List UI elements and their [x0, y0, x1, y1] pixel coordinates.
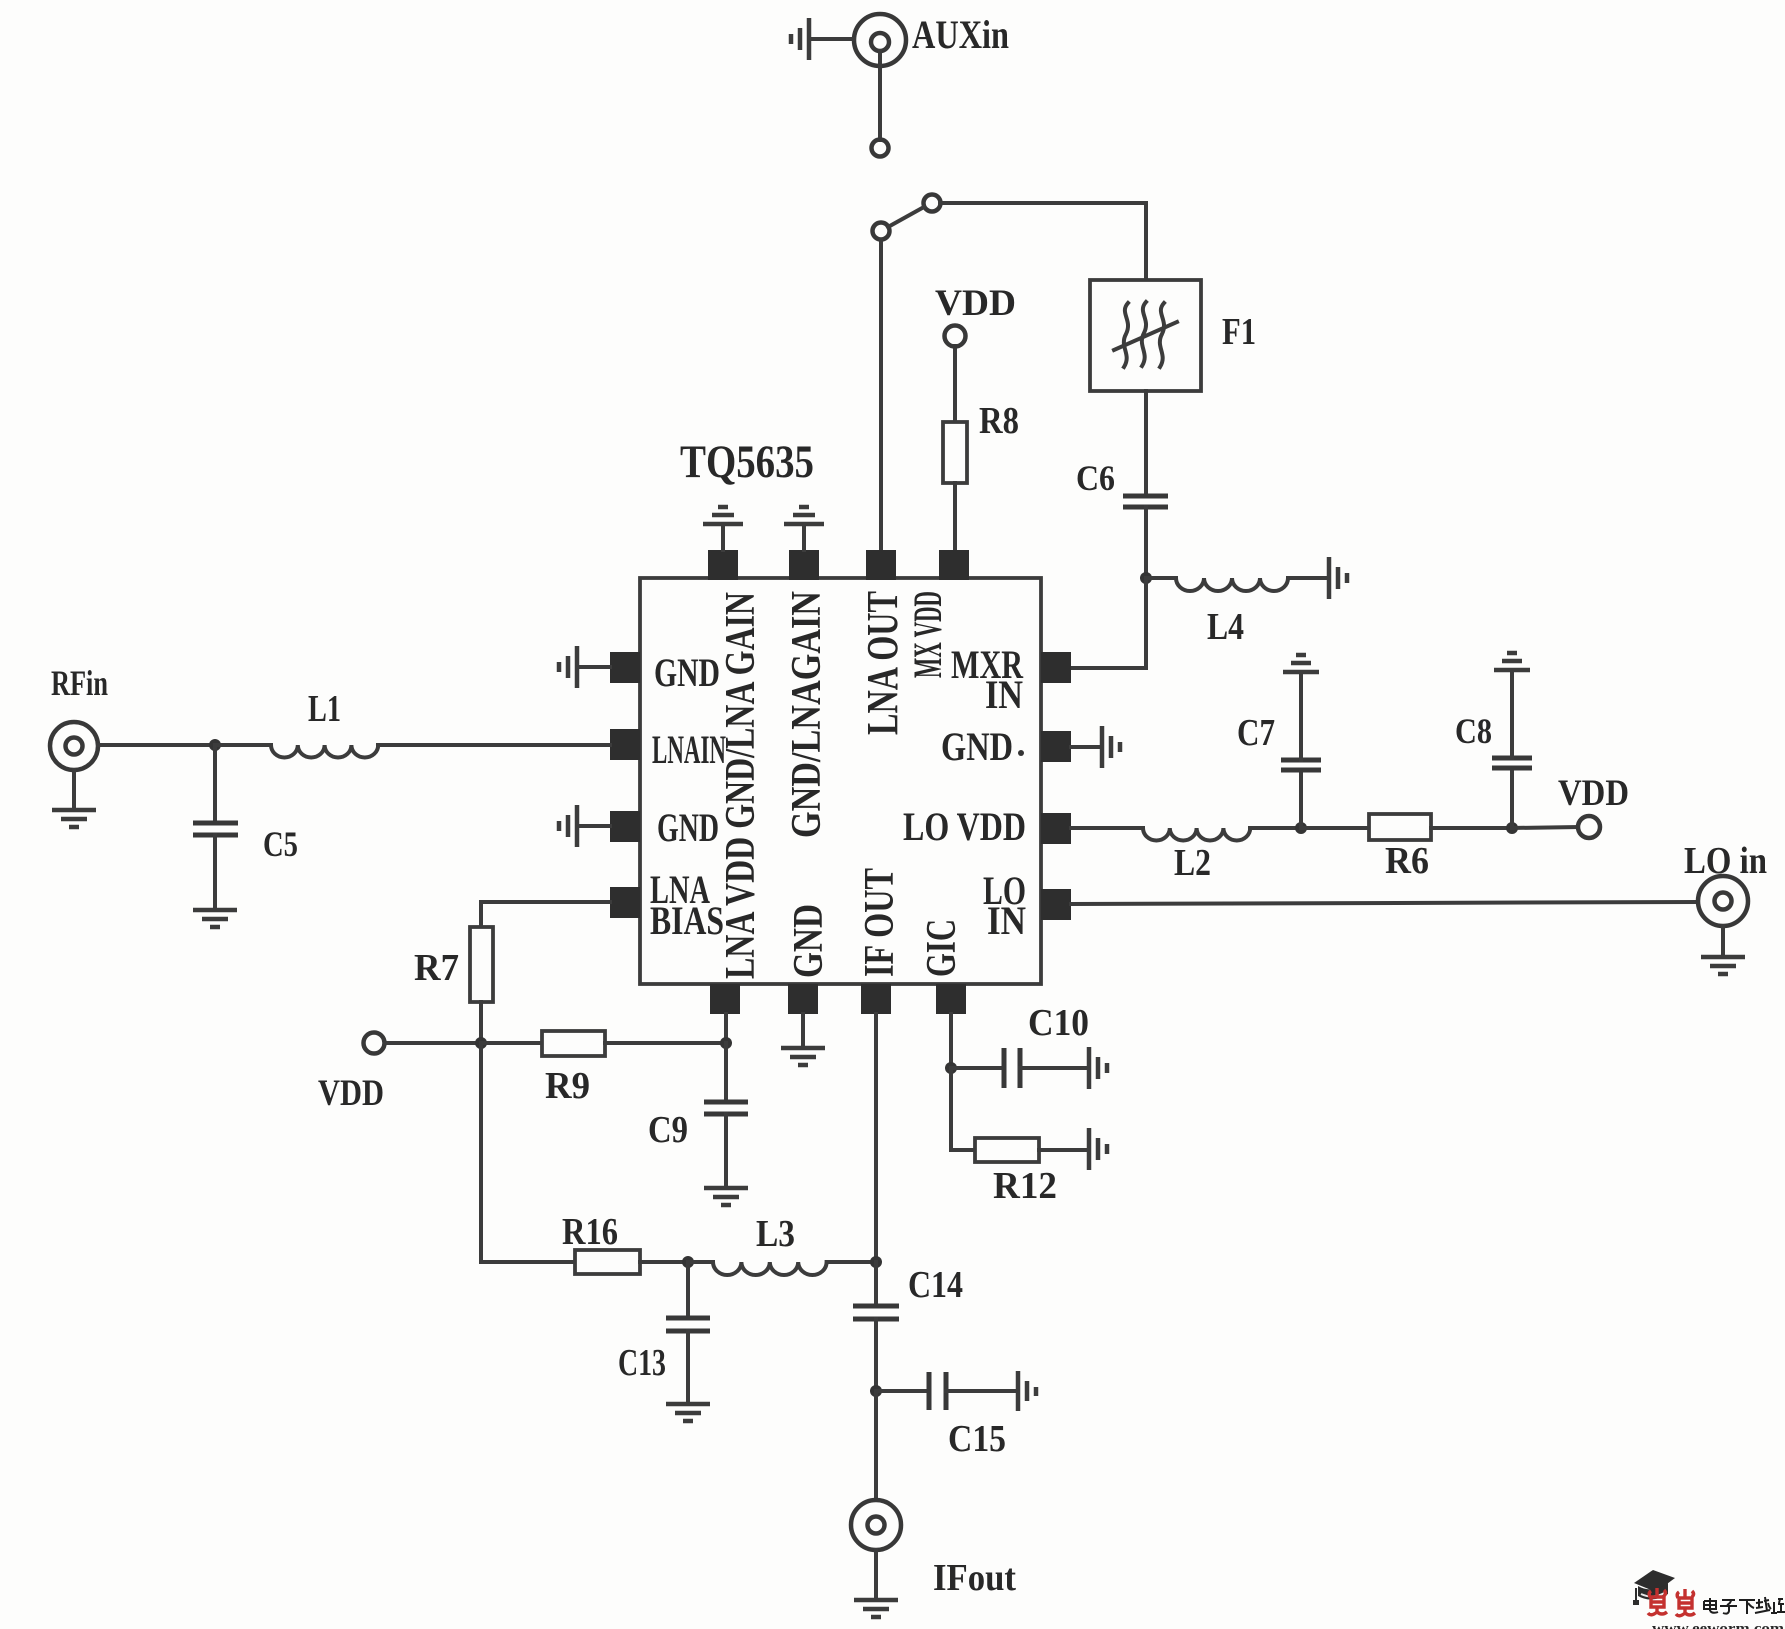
svg-text:VDD: VDD [318, 1073, 384, 1114]
wire LNA VDD pin down [724, 1014, 728, 1043]
capacitor C5 [193, 745, 238, 909]
node (C5 junction) [209, 739, 221, 751]
svg-text:C5: C5 [263, 824, 298, 864]
connector LO in [1698, 876, 1748, 956]
terminal VDD (left) [364, 1033, 385, 1054]
resistor R9 [481, 1031, 726, 1056]
ground (below RFin) [52, 810, 96, 827]
wire switch to F1 [940, 203, 1146, 280]
svg-text:GND: GND [654, 650, 720, 695]
svg-text:LO in: LO in [1684, 840, 1767, 882]
svg-text:MX VDD: MX VDD [905, 591, 950, 678]
svg-text:GIC: GIC [919, 919, 965, 977]
svg-text:BIAS: BIAS [650, 898, 724, 943]
pin right1 MXR IN [1041, 652, 1071, 683]
svg-text:R6: R6 [1385, 840, 1429, 882]
wire LNA BIAS pin to R7 [481, 902, 610, 927]
resistor R8 [943, 346, 967, 551]
capacitor C9 [704, 1043, 748, 1187]
resistor R16 [575, 1250, 688, 1274]
pin top2 GND/LNAGAIN [789, 550, 819, 580]
terminal VDD (right) [1578, 816, 1600, 838]
op-amp/IC U1 TQ5635 body [640, 578, 1041, 984]
pin bottom2 GND [788, 984, 818, 1014]
svg-text:IN: IN [985, 672, 1023, 717]
wire GIC junction down to R12 [951, 1068, 975, 1150]
wire LO VDD pin to L2 [1071, 826, 1143, 830]
svg-text:IFout: IFout [933, 1557, 1016, 1599]
ground (below C13) [666, 1404, 710, 1421]
ground (left of AUXin) [791, 18, 854, 60]
capacitor C13 [666, 1262, 710, 1403]
svg-text:L1: L1 [308, 688, 341, 730]
pin left1 GND [610, 652, 640, 683]
pin bottom1 LNA VDD [710, 984, 740, 1014]
svg-text:www.eeworm.com: www.eeworm.com [1652, 1621, 1785, 1629]
svg-text:L2: L2 [1174, 842, 1211, 884]
pin right3 LO VDD [1041, 813, 1071, 844]
svg-text:IF OUT: IF OUT [857, 868, 903, 977]
connector IFout [851, 1500, 901, 1599]
ground (above C7) [1283, 655, 1319, 672]
ground (below LO in) [1701, 957, 1745, 974]
node (IF OUT/L3 junction) [870, 1256, 882, 1268]
resistor R12 [975, 1138, 1087, 1162]
svg-text:C10: C10 [1028, 1002, 1089, 1044]
svg-text:C6: C6 [1076, 458, 1115, 498]
wire VDD terminal to junction [385, 1041, 481, 1045]
node (C15 junction) [870, 1385, 882, 1397]
node (GIC/C10 junction) [945, 1062, 957, 1074]
ground (right of C15) [1018, 1371, 1036, 1411]
wire junction down to MXR IN pin [1071, 578, 1146, 668]
svg-text:GND: GND [786, 904, 832, 978]
pin right4 LO IN [1041, 889, 1071, 920]
capacitor C6 [1123, 496, 1168, 507]
pin left2 LNAIN [610, 729, 640, 760]
svg-text:R16: R16 [562, 1211, 618, 1253]
wire GIC pin down to junction [949, 1014, 953, 1068]
svg-text:C14: C14 [908, 1264, 963, 1306]
connector RFin [50, 722, 98, 809]
wire R6 to VDD terminal [1512, 827, 1578, 828]
watermark text 虫虫 (red) [1648, 1588, 1695, 1616]
wire VDD junction down to R16 [481, 1043, 575, 1262]
node (C6/L4 junction) [1140, 572, 1152, 584]
pin bottom4 GIC [936, 984, 966, 1014]
wire LO IN pin to LO in connector [1071, 902, 1697, 904]
node (VDD/R7/R9 junction) [475, 1037, 487, 1049]
pin label LO IN [983, 868, 1026, 943]
svg-text:LO VDD: LO VDD [903, 804, 1026, 849]
node (C8 junction) [1506, 822, 1518, 834]
node (LNA VDD/C9 junction) [720, 1037, 732, 1049]
pin top4 MX VDD [939, 550, 969, 580]
ground (right of L4) [1329, 557, 1347, 599]
capacitor C15 [876, 1372, 1016, 1410]
svg-text:R7: R7 [414, 947, 459, 989]
svg-text:R12: R12 [993, 1165, 1057, 1207]
ground (left pin1) [559, 646, 610, 688]
connector AUXin [854, 14, 906, 157]
pin bottom3 IF OUT [861, 984, 891, 1014]
wire switch pole down to LNA OUT pin [879, 240, 883, 551]
svg-text:GND: GND [941, 724, 1013, 769]
pin top3 LNA OUT [866, 550, 896, 580]
watermark text 电子下载站 (drawn glyphs) [1704, 1597, 1785, 1614]
filter F1 [1090, 280, 1201, 391]
ground (below IFout) [854, 1600, 898, 1617]
inductor L4 [1146, 578, 1326, 591]
wire IF OUT pin down to L3 junction [874, 1014, 878, 1262]
svg-text:LNAIN: LNAIN [652, 727, 726, 772]
inductor L1 [215, 745, 610, 758]
svg-text:C7: C7 [1237, 712, 1275, 754]
svg-text:R8: R8 [979, 400, 1019, 442]
wire F1 to C6 [1144, 391, 1148, 494]
svg-text:LNA OUT: LNA OUT [858, 591, 907, 735]
inductor L3 [688, 1262, 876, 1275]
svg-text:R9: R9 [545, 1065, 590, 1107]
resistor R6 [1301, 814, 1512, 840]
svg-text:L3: L3 [756, 1213, 795, 1255]
ground (below bottom GND pin) [781, 1014, 825, 1065]
ground (right of C10) [1089, 1047, 1107, 1089]
pin left3 GND [610, 811, 640, 842]
ground (above pin top1) [703, 507, 743, 550]
node (R16/L3/C13 junction) [682, 1256, 694, 1268]
inductor L2 [1143, 828, 1301, 841]
capacitor C7 [1281, 673, 1321, 828]
ground (above C8) [1494, 653, 1530, 670]
svg-text:LNA VDD GND/LNA GAIN: LNA VDD GND/LNA GAIN [718, 592, 764, 979]
terminal VDD (top) [945, 326, 966, 347]
ground (below C9) [704, 1188, 748, 1205]
capacitor C8 [1492, 671, 1532, 828]
pin top1 GND/LNA GAIN [708, 550, 738, 580]
pin label LNA BIAS [650, 867, 724, 943]
ground (right pin2 GND) [1071, 726, 1120, 768]
pin right2 GND [1041, 731, 1071, 762]
capacitor C14 [853, 1262, 899, 1391]
svg-text:VDD: VDD [1558, 773, 1629, 814]
svg-text:TQ5635: TQ5635 [680, 436, 814, 488]
svg-text:F1: F1 [1222, 311, 1256, 353]
wire C6 to junction [1144, 507, 1148, 578]
svg-text:L4: L4 [1207, 606, 1244, 648]
wire C15 junction down to IFout [874, 1391, 878, 1499]
svg-text:C9: C9 [648, 1109, 688, 1151]
svg-text:VDD: VDD [935, 283, 1016, 324]
ground (below C5) [193, 910, 237, 927]
svg-text:GND: GND [657, 805, 719, 850]
svg-text:GND/LNAGAIN: GND/LNAGAIN [784, 591, 830, 838]
wire RFin to junction [98, 743, 215, 747]
svg-text:AUXin: AUXin [912, 12, 1009, 57]
svg-text:C13: C13 [618, 1342, 666, 1384]
ground (right of R12) [1089, 1128, 1107, 1170]
svg-text:IN: IN [987, 898, 1026, 943]
pin label MXR IN [951, 642, 1024, 717]
node (C7 junction) [1295, 822, 1307, 834]
pin left4 LNA BIAS [610, 887, 640, 918]
ground (left pin3) [559, 805, 610, 847]
svg-text:C15: C15 [948, 1418, 1006, 1460]
svg-text:RFin: RFin [51, 663, 108, 703]
svg-text:C8: C8 [1455, 711, 1492, 751]
ground (above pin top2) [784, 507, 824, 550]
switch S1 [873, 195, 941, 240]
capacitor C10 [951, 1048, 1087, 1088]
watermark logo: graduation cap [1633, 1570, 1675, 1605]
resistor R7 [470, 927, 493, 1043]
